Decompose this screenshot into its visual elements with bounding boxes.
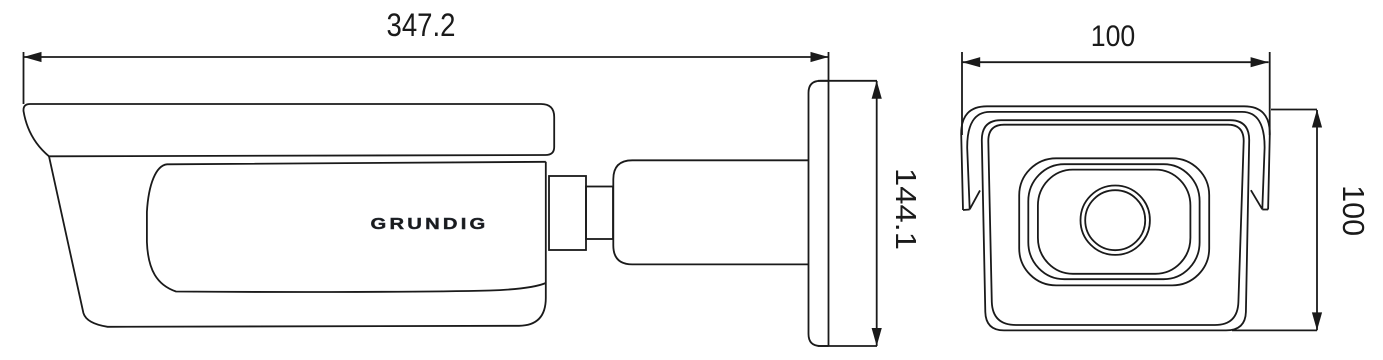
- svg-text:GRUNDIG: GRUNDIG: [371, 216, 489, 233]
- svg-text:100: 100: [1336, 185, 1369, 236]
- svg-text:347.2: 347.2: [387, 7, 456, 43]
- svg-text:144.1: 144.1: [889, 168, 921, 250]
- svg-text:100: 100: [1091, 20, 1136, 53]
